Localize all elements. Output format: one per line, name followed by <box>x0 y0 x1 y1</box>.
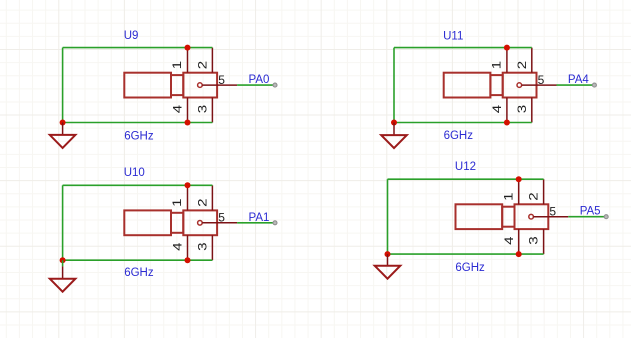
wire GND net: left vertical U12 <box>387 179 389 254</box>
svg-text:6GHz: 6GHz <box>455 262 485 274</box>
wire GND net: bottom segment U11 <box>394 122 532 124</box>
svg-text:2: 2 <box>195 198 209 207</box>
junction pin4/bottom wire U10 <box>185 257 191 263</box>
net port dot PA0 <box>273 83 277 87</box>
connector U12 (SMA) <box>456 179 569 254</box>
svg-text:2: 2 <box>515 60 529 69</box>
junction pin1/top wire U11 <box>504 45 510 51</box>
net port dot PA4 <box>592 83 596 87</box>
junction pin1/top wire U9 <box>185 45 191 51</box>
svg-text:4: 4 <box>171 242 185 251</box>
net port dot PA1 <box>273 221 277 225</box>
svg-text:5: 5 <box>218 211 225 225</box>
connector U10 (SMA) <box>124 185 237 260</box>
svg-text:4: 4 <box>502 236 516 245</box>
svg-text:PA5: PA5 <box>580 206 601 218</box>
ground symbol U10 <box>50 260 76 292</box>
junction pin1/top wire U10 <box>185 182 191 188</box>
wire net PA0 from pin 5 <box>237 84 273 86</box>
svg-text:U9: U9 <box>124 30 139 42</box>
svg-text:1: 1 <box>490 60 504 69</box>
junction ground corner U10 <box>60 257 66 263</box>
junction ground corner U11 <box>391 120 397 126</box>
wire GND net: left vertical U9 <box>62 48 64 123</box>
svg-text:6GHz: 6GHz <box>444 130 474 142</box>
svg-text:1: 1 <box>501 192 515 201</box>
wire GND net: top segment U9 <box>63 47 213 49</box>
svg-text:6GHz: 6GHz <box>124 130 154 142</box>
ground symbol U11 <box>381 123 407 149</box>
svg-text:4: 4 <box>171 104 185 113</box>
wire GND net: top segment U11 <box>394 47 532 49</box>
svg-text:PA0: PA0 <box>249 74 270 86</box>
svg-text:2: 2 <box>195 60 209 69</box>
wire net PA4 from pin 5 <box>557 84 593 86</box>
junction pin4/bottom wire U11 <box>504 120 510 126</box>
ground symbol U9 <box>50 123 76 148</box>
svg-text:U10: U10 <box>124 167 145 179</box>
svg-text:5: 5 <box>549 205 556 219</box>
junction ground corner U9 <box>60 120 66 126</box>
svg-text:5: 5 <box>538 73 545 87</box>
connector U11 (SMA) <box>444 48 557 123</box>
wire GND net: top segment U10 <box>63 184 213 186</box>
svg-text:3: 3 <box>515 104 529 113</box>
svg-text:2: 2 <box>527 192 541 201</box>
svg-text:U11: U11 <box>443 30 463 42</box>
connector U9 (SMA) <box>124 48 237 123</box>
svg-text:PA1: PA1 <box>249 212 270 224</box>
wire GND net: left vertical U10 <box>62 185 64 260</box>
svg-text:1: 1 <box>170 60 184 69</box>
junction pin4/bottom wire U9 <box>185 120 191 126</box>
junction pin4/bottom wire U12 <box>516 251 522 257</box>
junction ground corner U12 <box>385 251 391 257</box>
net port dot PA5 <box>604 215 608 219</box>
wire net PA1 from pin 5 <box>237 222 273 224</box>
junction pin1/top wire U12 <box>516 176 522 182</box>
wire GND net: left vertical U11 <box>393 48 395 123</box>
svg-text:3: 3 <box>195 242 209 251</box>
wire GND net: bottom segment U9 <box>63 122 213 124</box>
wire GND net: bottom segment U12 <box>388 253 544 255</box>
svg-text:PA4: PA4 <box>568 74 589 86</box>
svg-text:4: 4 <box>490 104 504 113</box>
svg-text:6GHz: 6GHz <box>124 267 154 279</box>
wire GND net: bottom segment U10 <box>63 259 213 261</box>
ground symbol U12 <box>375 254 401 279</box>
svg-text:3: 3 <box>527 236 541 245</box>
wire net PA5 from pin 5 <box>568 216 604 218</box>
wire GND net: top segment U12 <box>388 178 544 180</box>
svg-text:1: 1 <box>170 198 184 207</box>
svg-text:5: 5 <box>218 73 225 87</box>
svg-text:U12: U12 <box>455 161 476 173</box>
svg-text:3: 3 <box>195 104 209 113</box>
